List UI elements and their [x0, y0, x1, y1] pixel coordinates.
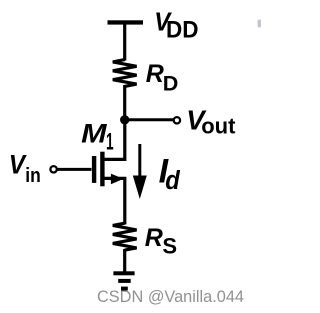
- svg-text:in: in: [25, 165, 41, 187]
- output terminal circle: [174, 117, 180, 123]
- current arrow Id: [133, 144, 147, 199]
- label Vout: [186, 104, 236, 138]
- wire RS to ground: [123, 249, 126, 273]
- label M1: [81, 118, 113, 155]
- svg-text:M: M: [81, 118, 107, 148]
- svg-text:1: 1: [106, 130, 114, 156]
- svg-text:CSDN @Vanilla.044: CSDN @Vanilla.044: [97, 287, 244, 306]
- transistor M1 channel bar: [100, 152, 104, 187]
- svg-text:DD: DD: [166, 16, 199, 43]
- transistor M1 gate bar: [92, 156, 96, 183]
- power VDD symbol: [108, 20, 144, 24]
- label Vin: [9, 149, 41, 187]
- svg-text:S: S: [162, 233, 177, 258]
- label VDD: [154, 6, 198, 43]
- label RD: [146, 60, 179, 95]
- ground: [113, 271, 134, 290]
- stray cropped glyph at right edge: [258, 20, 262, 28]
- wire node to output terminal: [125, 118, 174, 121]
- svg-text:d: d: [165, 167, 181, 195]
- svg-text:R: R: [146, 60, 164, 88]
- svg-text:D: D: [163, 71, 179, 96]
- wire node down to drain corner and to channel bar: [104, 120, 125, 160]
- svg-text:V: V: [9, 149, 27, 179]
- gate wire from input terminal: [57, 168, 92, 171]
- input terminal circle: [50, 166, 56, 172]
- svg-text:R: R: [145, 224, 163, 252]
- svg-text:out: out: [201, 113, 236, 138]
- source wire with corner down to RS: [104, 178, 125, 224]
- resistor RS: [113, 223, 137, 250]
- wire RD to drain node: [123, 85, 126, 120]
- resistor RD: [113, 60, 137, 87]
- label RS: [145, 224, 177, 258]
- node drain junction dot: [120, 115, 129, 124]
- label Id: [159, 153, 181, 195]
- source arrowhead of M1: [111, 174, 124, 185]
- wire VDD to RD: [123, 23, 126, 61]
